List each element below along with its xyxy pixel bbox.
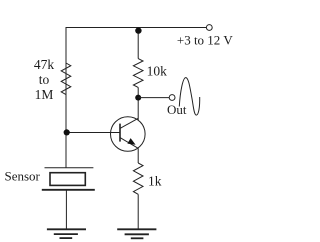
resistor R2 10k zigzag (133, 59, 143, 88)
transistor Q1 collector lead (120, 118, 138, 128)
svg-text:1M: 1M (35, 87, 54, 102)
transistor Q1 circle (111, 117, 146, 152)
sensor top plate (45, 167, 94, 169)
out terminal circle (169, 95, 175, 101)
node: supply junction dot (135, 27, 141, 33)
resistor R1 47k-1M zigzag (61, 63, 71, 95)
power terminal circle (206, 25, 212, 31)
wire: top supply rail (66, 28, 206, 96)
node: collector/out junction dot (135, 95, 141, 101)
transistor Q1 emitter arrowhead (127, 138, 135, 145)
node: base junction dot (64, 129, 70, 135)
transistor Q1 emitter lead (120, 138, 138, 149)
ground left (47, 229, 86, 238)
wire: sensor to ground (65, 190, 67, 230)
sensor bottom plate (42, 189, 95, 191)
wire: base horizontal (66, 132, 120, 134)
wire: left vertical from R1 to sensor (65, 95, 67, 168)
svg-text:Sensor: Sensor (5, 168, 41, 183)
svg-text:to: to (39, 72, 50, 87)
transistor Q1 base bar (119, 124, 121, 142)
resistor R3 1k zigzag (133, 163, 143, 194)
wire: 10k to collector (137, 87, 139, 120)
svg-text:47k: 47k (34, 57, 55, 72)
wire: right vertical from rail to 10k (137, 28, 139, 59)
wire: 1k to ground (137, 194, 139, 229)
svg-text:10k: 10k (147, 64, 168, 79)
ground right (117, 229, 156, 238)
sensor piezo body rectangle (50, 173, 85, 186)
svg-text:1k: 1k (148, 173, 162, 188)
wire: out horizontal (138, 97, 169, 99)
sine wave output symbol (179, 78, 199, 116)
svg-text:+3 to 12 V: +3 to 12 V (177, 32, 233, 47)
wire: emitter to 1k (137, 148, 139, 163)
svg-text:Out: Out (167, 102, 187, 117)
